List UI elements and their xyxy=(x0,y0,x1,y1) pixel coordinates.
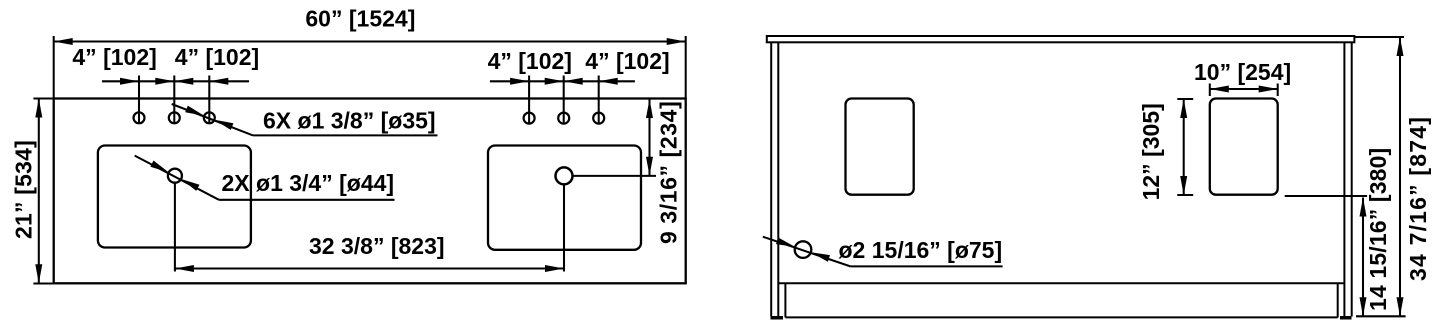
9 3/16 dimension line xyxy=(648,99,650,176)
12in arrow bottom xyxy=(1180,176,1187,195)
32in dimension line xyxy=(175,267,564,269)
14in dimension line xyxy=(1362,198,1364,317)
svg-text:ø2 15/16” [ø75]: ø2 15/16” [ø75] xyxy=(839,237,1003,263)
60in arrow left xyxy=(54,38,73,45)
32in arrow right xyxy=(545,265,564,272)
svg-text:4” [102]: 4” [102] xyxy=(585,48,669,74)
svg-text:4” [102]: 4” [102] xyxy=(488,48,572,74)
right side panel outer xyxy=(1351,42,1353,316)
60in extension line right xyxy=(685,36,687,99)
right drain extension line right xyxy=(573,175,657,177)
32in arrow left xyxy=(175,265,194,272)
left 4in dimension line xyxy=(102,80,249,82)
right side panel inner xyxy=(1343,42,1345,316)
left side panel inner xyxy=(777,42,779,316)
leader 75 arrow a xyxy=(776,238,795,247)
countertop slab front xyxy=(767,36,1355,42)
60in arrow right xyxy=(667,38,686,45)
right foot xyxy=(1340,316,1352,320)
34in extension line top xyxy=(1354,36,1404,38)
12in tick top xyxy=(1177,98,1193,100)
21in arrow bottom xyxy=(35,264,42,283)
svg-text:2X ø1 3/4” [ø44]: 2X ø1 3/4” [ø44] xyxy=(222,170,395,196)
svg-text:10” [254]: 10” [254] xyxy=(1194,59,1291,85)
left faucet hole 2 xyxy=(169,112,180,123)
10in extension line right xyxy=(1277,84,1279,97)
12in dimension line xyxy=(1183,99,1185,195)
10in arrow right xyxy=(1259,86,1278,93)
bottom rail top edge xyxy=(778,282,1344,284)
leader 6X diagonal xyxy=(172,104,253,135)
21in tick bottom xyxy=(33,282,52,284)
21in dimension line xyxy=(38,99,40,284)
right faucet hole 2 xyxy=(558,113,569,124)
left side panel outer xyxy=(770,42,772,316)
bottom shared extension line xyxy=(1356,315,1406,317)
60in dimension line xyxy=(54,40,686,42)
leader 6X underline xyxy=(253,134,438,136)
right drain extension line down xyxy=(563,184,565,271)
left backsplash opening xyxy=(846,99,914,195)
left drain hole xyxy=(168,169,182,183)
21in arrow top xyxy=(35,99,42,118)
svg-text:12” [305]: 12” [305] xyxy=(1138,103,1164,200)
svg-text:60” [1524]: 60” [1524] xyxy=(305,6,415,32)
leader 75 arrow b xyxy=(811,252,830,261)
svg-text:21” [534]: 21” [534] xyxy=(11,140,37,239)
leader 75 diagonal xyxy=(763,237,851,267)
10in extension line left xyxy=(1209,84,1211,97)
bottom rail right edge xyxy=(1337,283,1339,317)
14in arrow bottom xyxy=(1360,297,1367,316)
34in arrow bottom xyxy=(1397,297,1404,316)
svg-text:14 15/16” [380]: 14 15/16” [380] xyxy=(1365,148,1391,311)
leader 2X arrow a xyxy=(150,161,168,173)
34in dimension line xyxy=(1399,37,1401,316)
svg-text:34 7/16” [874]: 34 7/16” [874] xyxy=(1405,116,1431,281)
60in extension line left xyxy=(53,36,55,99)
14in arrow top xyxy=(1360,198,1367,217)
right 4in arrows xyxy=(510,78,529,85)
21in tick top xyxy=(33,97,52,99)
svg-text:4” [102]: 4” [102] xyxy=(175,44,259,70)
right drain hole xyxy=(556,167,573,184)
svg-text:4” [102]: 4” [102] xyxy=(72,44,156,70)
14in extension line top xyxy=(1285,195,1367,197)
leader 2X underline xyxy=(219,199,395,201)
10in dimension line xyxy=(1210,88,1278,90)
left 4in arrows xyxy=(120,78,139,85)
leader 2X diagonal xyxy=(135,156,219,200)
right faucet holes extension lines xyxy=(528,76,530,124)
hole 75 circle xyxy=(795,241,812,258)
svg-text:9 3/16” [234]: 9 3/16” [234] xyxy=(656,101,682,244)
bottom rail bottom edge xyxy=(785,316,1337,318)
left sink cutout xyxy=(98,146,251,248)
9 3/16 arrow bottom xyxy=(646,157,653,176)
10in arrow left xyxy=(1210,86,1229,93)
right faucet hole 1 xyxy=(524,113,535,124)
left drain extension line down xyxy=(174,183,176,272)
countertop outline xyxy=(54,99,686,284)
9 3/16 arrow top xyxy=(646,99,653,118)
leader 6X arrow b xyxy=(214,120,233,130)
12in arrow top xyxy=(1180,99,1187,118)
left faucet hole 1 xyxy=(134,112,145,123)
svg-text:32 3/8” [823]: 32 3/8” [823] xyxy=(309,233,445,259)
leader 6X arrow a xyxy=(185,106,204,116)
right sink cutout xyxy=(488,146,641,250)
svg-text:6X ø1 3/8” [ø35]: 6X ø1 3/8” [ø35] xyxy=(263,108,436,134)
left faucet holes extension lines xyxy=(138,76,140,124)
12in tick bottom xyxy=(1177,194,1193,196)
bottom rail left edge xyxy=(784,283,786,317)
34in arrow top xyxy=(1397,37,1404,56)
right 4in dimension line xyxy=(490,80,635,82)
leader 2X arrow b xyxy=(181,179,199,191)
left faucet hole 3 xyxy=(204,112,215,123)
left foot xyxy=(771,316,784,320)
leader 75 underline xyxy=(850,265,1002,267)
right faucet hole 3 xyxy=(593,113,604,124)
right backsplash opening xyxy=(1210,99,1278,195)
